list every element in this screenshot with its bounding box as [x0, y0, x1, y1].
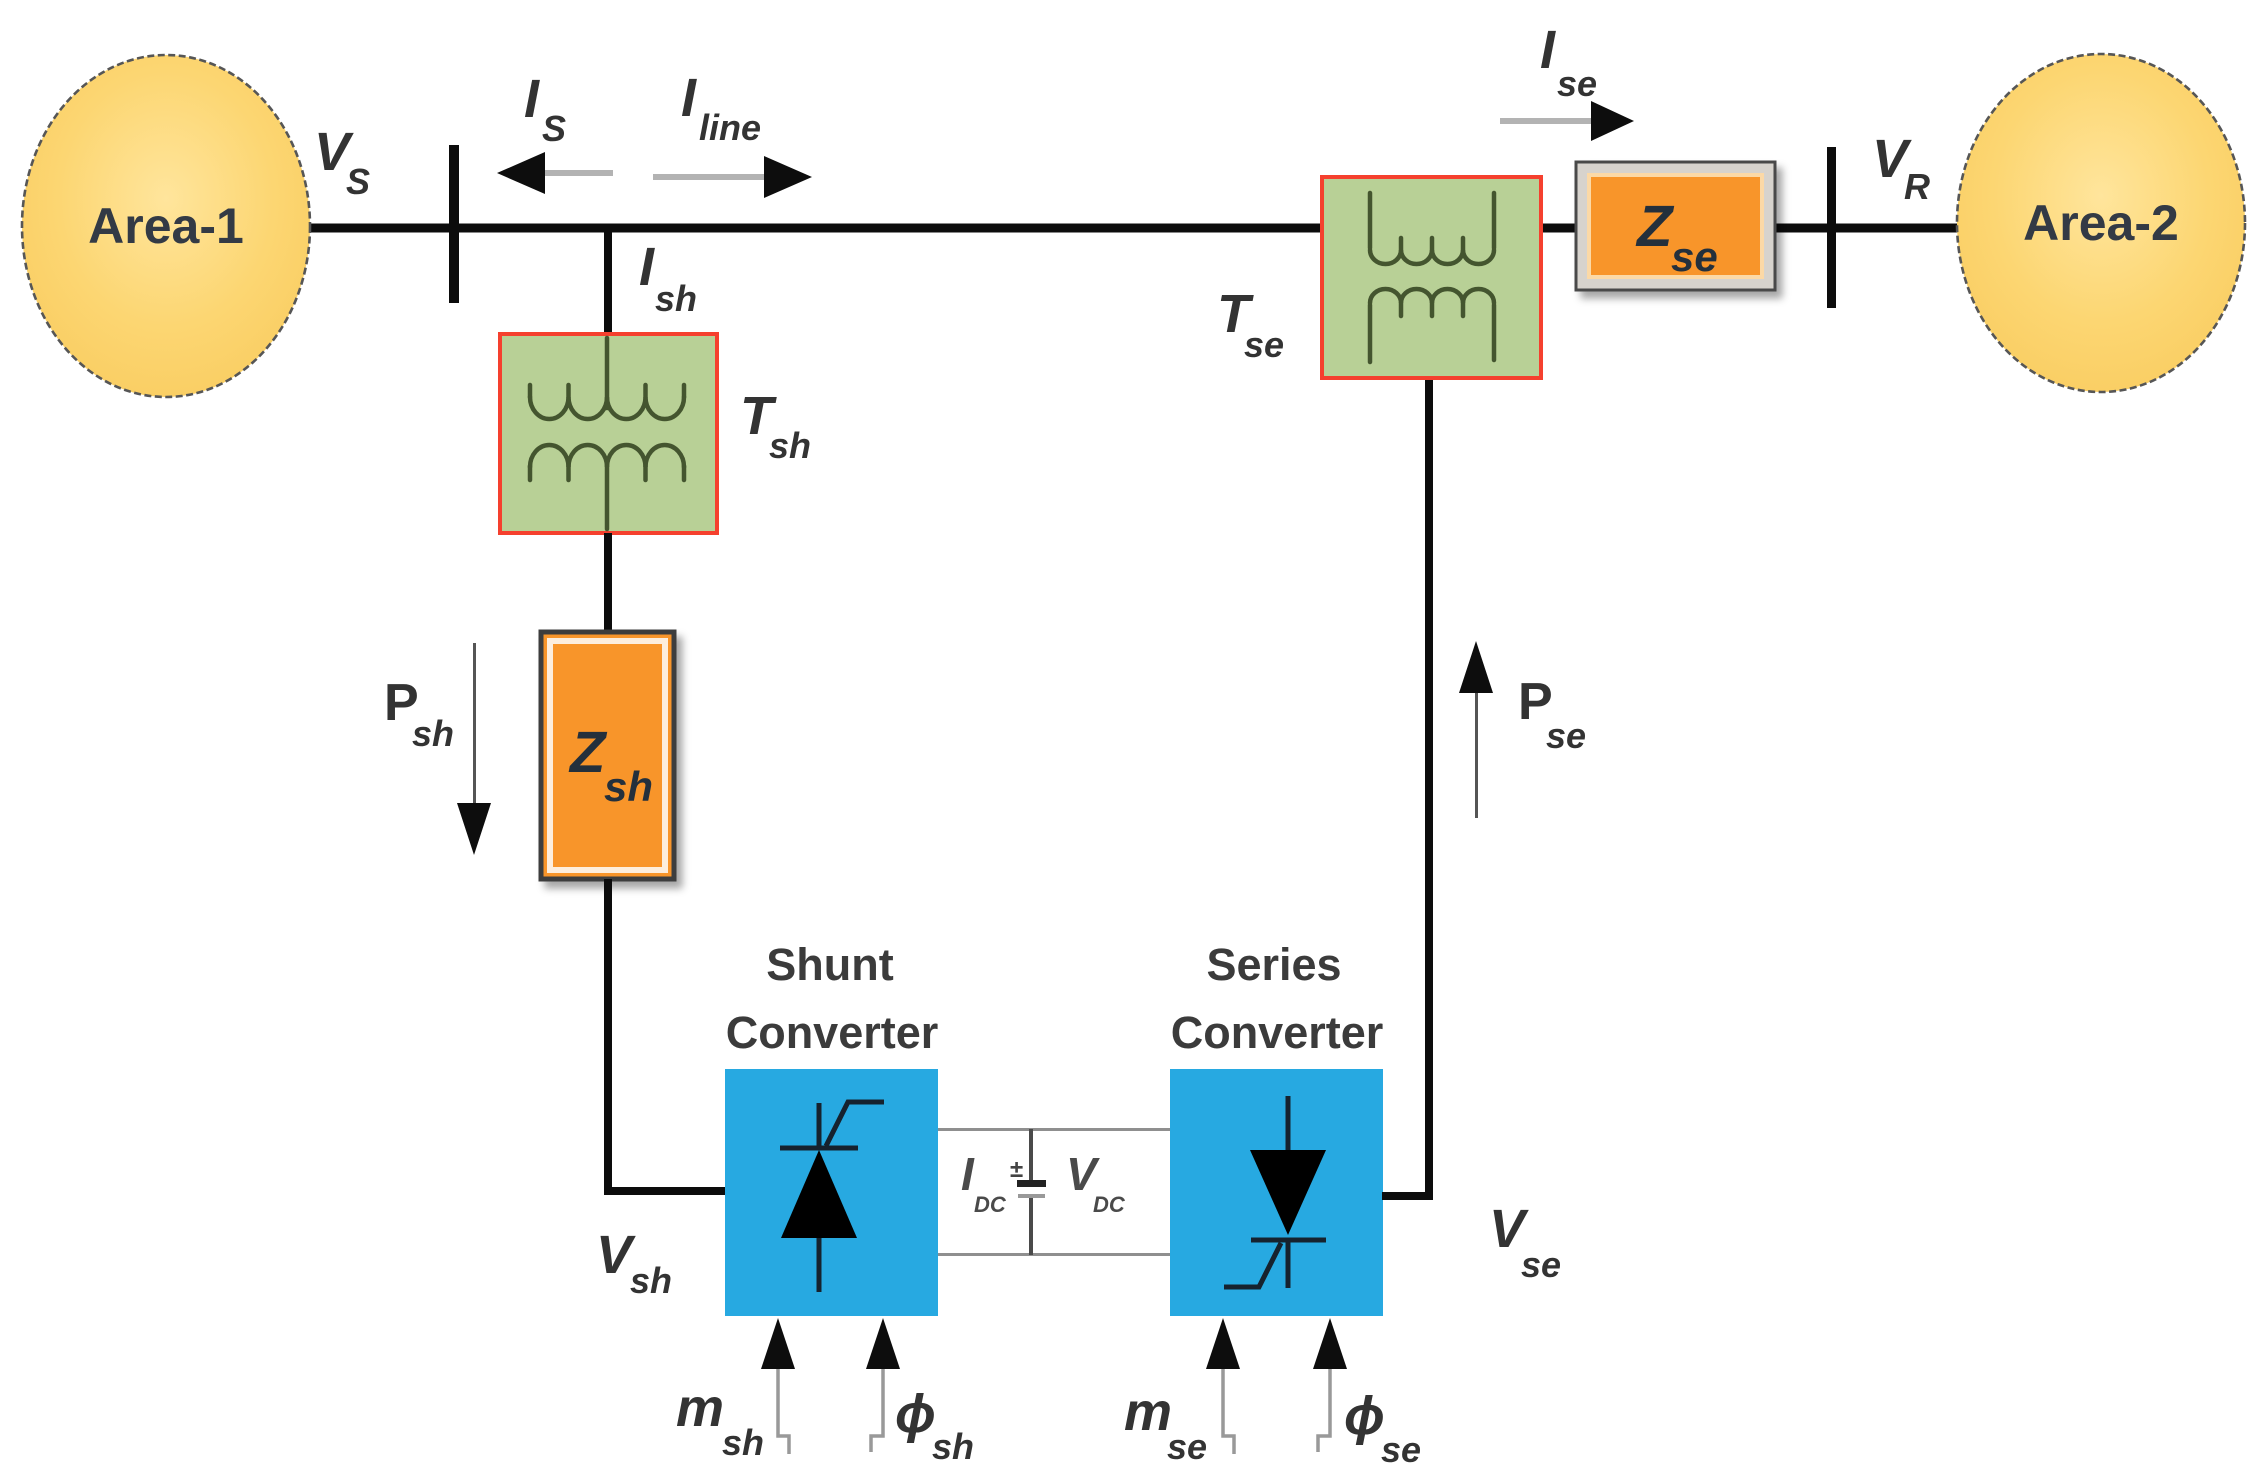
wire: bus junction down to Tsh [604, 228, 612, 338]
label m_sh [676, 1378, 764, 1463]
control input arrow m_sh [761, 1318, 795, 1454]
node label Vs [314, 122, 370, 202]
svg-text:I: I [524, 69, 540, 129]
svg-text:sh: sh [604, 763, 653, 810]
svg-text:se: se [1546, 715, 1586, 756]
thyristor Q-shunt [780, 1102, 884, 1292]
svg-text:S: S [542, 108, 566, 149]
svg-text:Z: Z [568, 720, 608, 785]
label Psh [384, 674, 454, 754]
label Vse [1489, 1199, 1561, 1285]
primary winding [1370, 193, 1494, 250]
label Shunt Converter [726, 939, 939, 1058]
svg-text:sh: sh [769, 425, 811, 466]
secondary winding [530, 466, 684, 480]
svg-text:R: R [1904, 166, 1930, 207]
svg-text:Series: Series [1206, 939, 1341, 990]
svg-text:sh: sh [412, 713, 454, 754]
svg-text:Converter: Converter [1171, 1007, 1384, 1058]
wire: dc link bottom [938, 1253, 1170, 1256]
label Ise [1540, 20, 1597, 104]
svg-text:DC: DC [974, 1192, 1007, 1217]
svg-text:m: m [1124, 1382, 1172, 1442]
wire: series converter to series leg corner [1382, 378, 1429, 1196]
generator Area-2 [1957, 54, 2245, 392]
svg-text:se: se [1557, 63, 1597, 104]
series converter box [1170, 1069, 1383, 1316]
svg-text:se: se [1244, 324, 1284, 365]
svg-text:sh: sh [932, 1426, 974, 1467]
wire: Zsh down and right to shunt converter [608, 879, 727, 1191]
svg-text:Z: Z [1635, 194, 1675, 259]
svg-text:sh: sh [655, 278, 697, 319]
wire: dc link top [938, 1128, 1170, 1131]
label Ish [639, 237, 697, 319]
impedance Zse [1576, 162, 1775, 290]
node: sending-end bus bar Vs [449, 145, 459, 303]
node label Vr [1872, 129, 1930, 207]
node: receiving-end bus bar Vr [1827, 147, 1836, 308]
label Is [524, 69, 566, 149]
svg-text:sh: sh [722, 1422, 764, 1463]
label Series Converter [1171, 939, 1384, 1058]
svg-text:ϕ: ϕ [895, 1384, 936, 1444]
svg-text:line: line [699, 107, 761, 148]
svg-text:±: ± [1010, 1156, 1023, 1183]
transformer Tse [1322, 177, 1541, 378]
label Tse [1217, 284, 1284, 365]
control input arrow m_se [1206, 1318, 1240, 1454]
svg-text:m: m [676, 1378, 724, 1438]
winding leads [605, 338, 610, 529]
label m_se [1124, 1382, 1207, 1467]
svg-text:S: S [346, 161, 370, 202]
wire: Tsh to Zsh [604, 533, 612, 632]
arrow Iline (line current toward Area-2) [653, 156, 812, 198]
svg-text:se: se [1167, 1426, 1207, 1467]
arrow Ise (series current) [1500, 101, 1634, 141]
svg-text:Shunt: Shunt [766, 939, 893, 990]
label phi_se [1344, 1386, 1421, 1470]
label Idc [961, 1148, 1007, 1217]
svg-text:se: se [1671, 233, 1718, 280]
control input arrow phi_se [1313, 1318, 1347, 1452]
capacitor Cdc [1010, 1129, 1046, 1255]
thyristor Q-series [1224, 1096, 1326, 1288]
svg-text:Area-2: Area-2 [2023, 195, 2179, 251]
svg-text:Converter: Converter [726, 1007, 939, 1058]
svg-text:se: se [1521, 1244, 1561, 1285]
wire: main transmission line Area-1 to Tse [300, 224, 1326, 233]
control input arrow phi_sh [866, 1318, 900, 1452]
secondary winding [1370, 303, 1494, 362]
label Iline [681, 68, 761, 148]
svg-text:se: se [1381, 1429, 1421, 1470]
label phi_sh [895, 1384, 974, 1467]
label Vdc [1066, 1148, 1126, 1217]
svg-text:ϕ: ϕ [1344, 1386, 1385, 1446]
arrow Pse (power from series converter) [1459, 641, 1493, 818]
shunt converter box [725, 1069, 938, 1316]
label Pse [1518, 673, 1586, 756]
generator Area-1 [22, 55, 310, 397]
wire: Zse to Area-2 [1771, 224, 1961, 233]
svg-text:DC: DC [1093, 1192, 1126, 1217]
svg-text:I: I [639, 237, 655, 297]
svg-text:I: I [681, 68, 697, 128]
transformer Tsh [500, 334, 717, 533]
arrow Is (current into Area-1 bus) [497, 152, 613, 194]
svg-text:I: I [1540, 20, 1556, 80]
wire: Tse to Zse [1537, 224, 1582, 233]
primary winding [530, 385, 684, 397]
label Tsh [740, 386, 811, 466]
svg-text:I: I [961, 1148, 975, 1200]
impedance Zsh [541, 632, 674, 879]
svg-text:sh: sh [630, 1260, 672, 1301]
arrow Psh (power into shunt branch) [457, 643, 491, 855]
svg-text:Area-1: Area-1 [88, 198, 244, 254]
label Vsh [596, 1225, 672, 1301]
